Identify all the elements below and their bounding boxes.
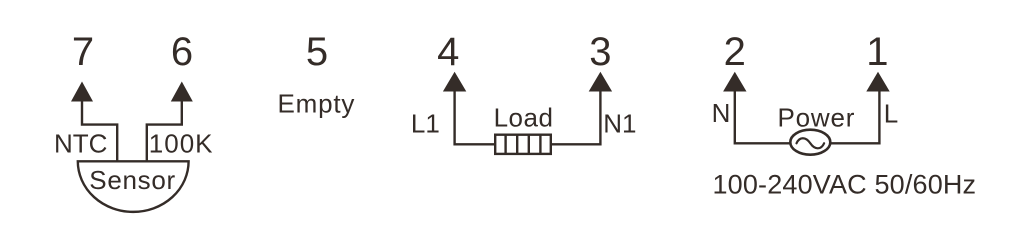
svg-text:NTC: NTC xyxy=(54,128,107,158)
wire pin6 to sensor 100K lead xyxy=(147,101,182,162)
svg-text:5: 5 xyxy=(306,30,328,74)
svg-text:N: N xyxy=(712,98,731,128)
AC source ellipse xyxy=(790,130,830,155)
load box divider 4 xyxy=(539,134,541,155)
svg-text:7: 7 xyxy=(72,30,94,74)
wire pin4 to load left xyxy=(455,91,495,145)
svg-text:100K: 100K xyxy=(149,128,214,158)
wire pin7 to sensor NTC lead xyxy=(82,101,117,162)
svg-text:L: L xyxy=(884,99,898,129)
svg-text:N1: N1 xyxy=(603,108,636,138)
sensor dome body xyxy=(78,161,189,212)
wire pin2 to AC source xyxy=(735,91,790,144)
load box divider 1 xyxy=(504,134,506,155)
AC source sine wave xyxy=(797,138,825,148)
svg-text:Empty: Empty xyxy=(278,88,356,118)
load resistor box xyxy=(495,135,551,154)
svg-text:100-240VAC 50/60Hz: 100-240VAC 50/60Hz xyxy=(713,169,977,199)
arrow terminal 2 xyxy=(723,72,746,92)
wire AC source to pin1 xyxy=(831,91,880,144)
arrow terminal 3 xyxy=(589,72,612,92)
wire load right to pin3 xyxy=(551,91,601,145)
svg-text:2: 2 xyxy=(724,30,746,74)
arrow terminal 7 xyxy=(71,82,93,102)
svg-text:1: 1 xyxy=(866,30,888,74)
svg-text:6: 6 xyxy=(171,30,193,74)
svg-text:Load: Load xyxy=(494,103,554,133)
load box divider 3 xyxy=(528,134,530,155)
arrow terminal 4 xyxy=(443,72,466,92)
svg-text:L1: L1 xyxy=(411,108,440,138)
svg-text:3: 3 xyxy=(589,30,611,74)
load box divider 2 xyxy=(516,134,518,155)
svg-text:Sensor: Sensor xyxy=(89,165,176,195)
svg-text:Power: Power xyxy=(778,102,856,132)
arrow terminal 1 xyxy=(866,72,889,92)
arrow terminal 6 xyxy=(171,82,193,102)
svg-text:4: 4 xyxy=(437,30,459,74)
